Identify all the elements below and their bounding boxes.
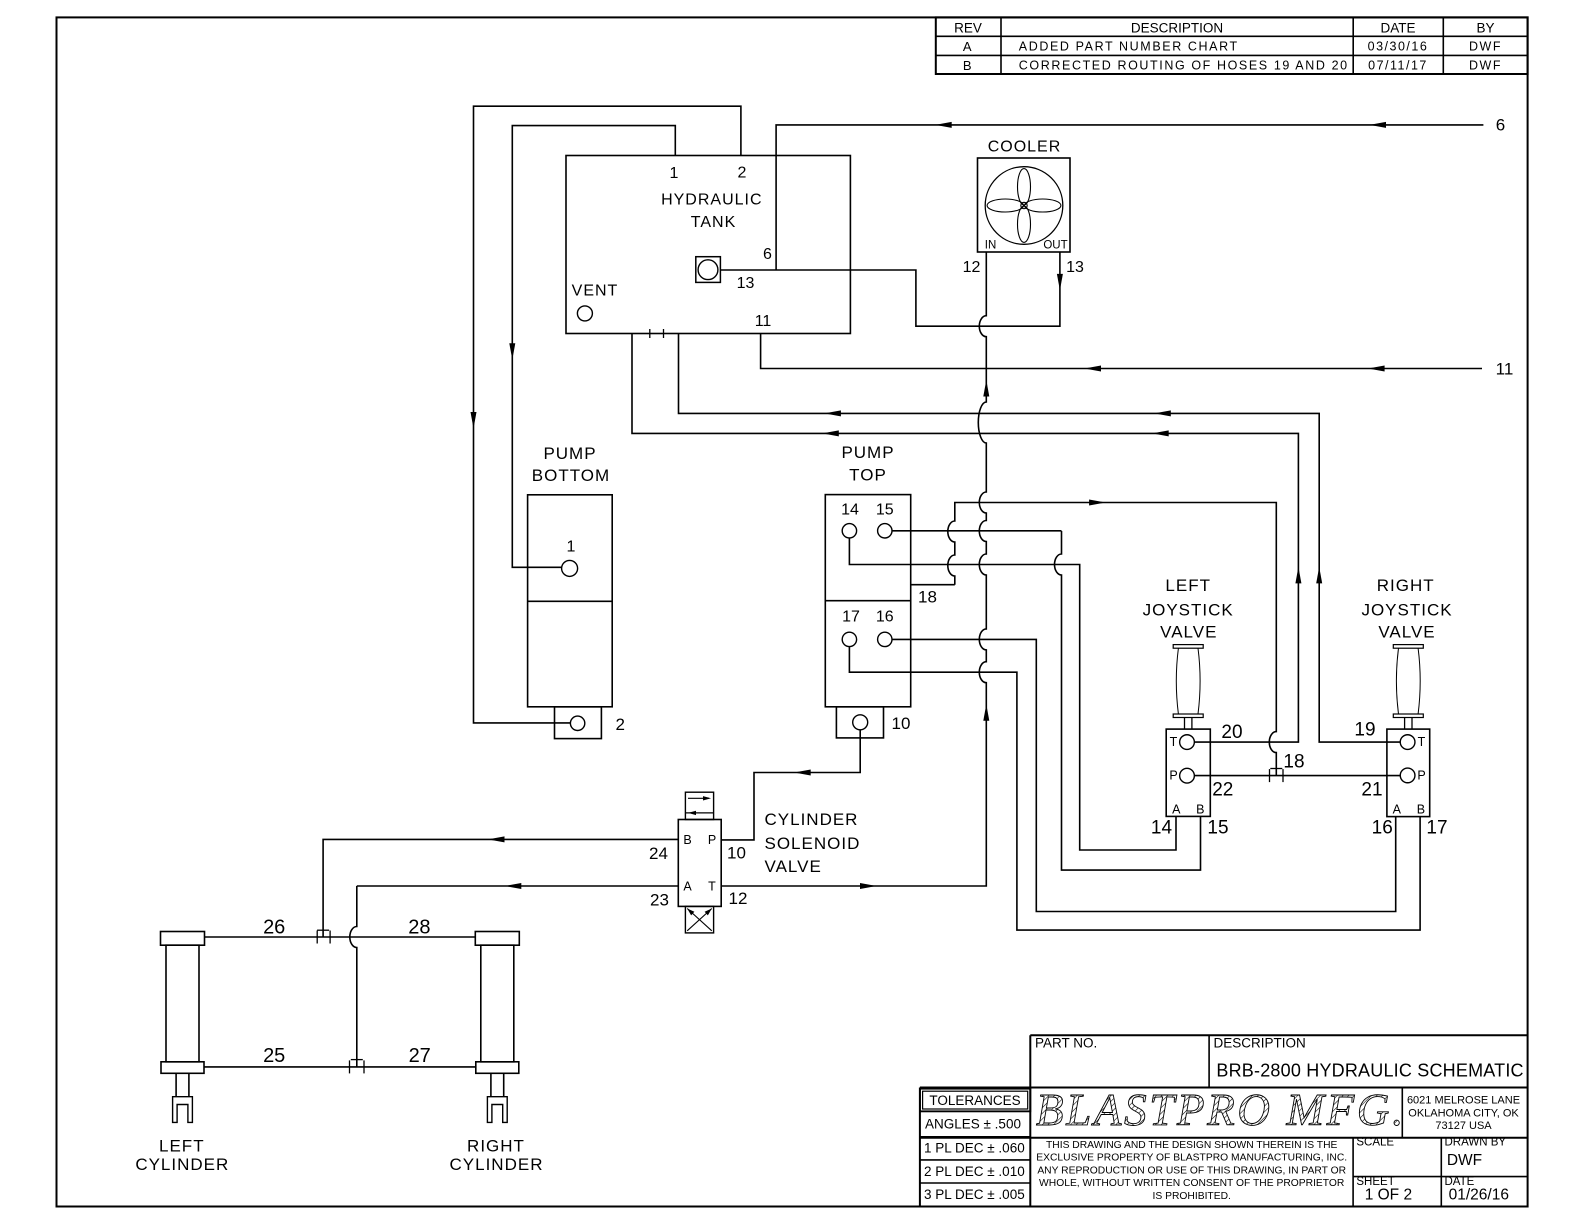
- svg-text:07/11/17: 07/11/17: [1368, 58, 1428, 72]
- svg-text:DRAWN BY: DRAWN BY: [1445, 1137, 1507, 1149]
- svg-text:17: 17: [1426, 818, 1447, 839]
- svg-text:T: T: [1418, 735, 1426, 749]
- svg-text:22: 22: [1212, 780, 1233, 801]
- svg-text:T: T: [708, 880, 716, 894]
- svg-text:P: P: [708, 833, 716, 847]
- svg-text:COOLER: COOLER: [988, 139, 1062, 156]
- svg-text:VENT: VENT: [572, 283, 619, 300]
- svg-text:B: B: [1417, 802, 1425, 816]
- svg-text:OKLAHOMA CITY, OK: OKLAHOMA CITY, OK: [1408, 1108, 1519, 1120]
- svg-text:ADDED PART NUMBER CHART: ADDED PART NUMBER CHART: [1019, 40, 1239, 54]
- svg-text:14: 14: [1151, 818, 1173, 839]
- svg-text:17: 17: [842, 609, 860, 626]
- svg-text:26: 26: [263, 917, 285, 939]
- svg-text:WHOLE, WITHOUT WRITTEN CONSENT: WHOLE, WITHOUT WRITTEN CONSENT OF THE PR…: [1039, 1178, 1344, 1189]
- svg-text:2 PL DEC ± .010: 2 PL DEC ± .010: [924, 1164, 1025, 1179]
- svg-text:DESCRIPTION: DESCRIPTION: [1214, 1036, 1306, 1051]
- svg-text:18: 18: [918, 588, 937, 607]
- svg-text:12: 12: [729, 889, 748, 908]
- svg-text:LEFT: LEFT: [159, 1137, 205, 1156]
- svg-text:1 OF 2: 1 OF 2: [1365, 1186, 1412, 1203]
- svg-text:BOTTOM: BOTTOM: [532, 466, 610, 485]
- svg-text:16: 16: [1372, 818, 1393, 839]
- svg-text:2: 2: [738, 165, 747, 182]
- svg-text:LEFT: LEFT: [1165, 576, 1211, 595]
- svg-text:DATE: DATE: [1380, 20, 1415, 35]
- svg-text:PUMP: PUMP: [543, 444, 596, 463]
- svg-text:25: 25: [263, 1045, 285, 1067]
- svg-text:REV: REV: [954, 20, 982, 35]
- svg-text:28: 28: [408, 917, 430, 939]
- svg-text:VALVE: VALVE: [1378, 623, 1435, 642]
- svg-text:IN: IN: [985, 240, 997, 252]
- svg-text:TOP: TOP: [849, 466, 887, 485]
- svg-text:SOLENOID: SOLENOID: [765, 834, 861, 853]
- svg-text:01/26/16: 01/26/16: [1449, 1186, 1509, 1203]
- svg-text:P: P: [1169, 769, 1177, 783]
- svg-text:RIGHT: RIGHT: [467, 1137, 525, 1156]
- svg-text:EXCLUSIVE PROPERTY OF BLASTPRO: EXCLUSIVE PROPERTY OF BLASTPRO MANUFACTU…: [1036, 1153, 1347, 1164]
- svg-text:13: 13: [1066, 259, 1084, 276]
- svg-text:CYLINDER: CYLINDER: [765, 810, 859, 829]
- svg-text:TOLERANCES: TOLERANCES: [929, 1093, 1020, 1108]
- svg-text:DWF: DWF: [1469, 40, 1502, 54]
- svg-text:19: 19: [1354, 720, 1375, 741]
- svg-text:IS PROHIBITED.: IS PROHIBITED.: [1153, 1191, 1231, 1202]
- svg-text:BRB-2800 HYDRAULIC SCHEMATIC: BRB-2800 HYDRAULIC SCHEMATIC: [1216, 1060, 1523, 1080]
- svg-text:6021 MELROSE LANE: 6021 MELROSE LANE: [1407, 1095, 1520, 1107]
- svg-text:1: 1: [567, 539, 576, 556]
- svg-text:SCALE: SCALE: [1356, 1137, 1394, 1149]
- svg-text:VALVE: VALVE: [765, 857, 822, 876]
- svg-text:18: 18: [1283, 752, 1304, 773]
- svg-text:HYDRAULIC: HYDRAULIC: [661, 192, 762, 209]
- svg-text:16: 16: [876, 609, 894, 626]
- svg-text:15: 15: [876, 501, 894, 518]
- svg-text:JOYSTICK: JOYSTICK: [1361, 601, 1452, 620]
- svg-text:THIS DRAWING AND THE DESIGN SH: THIS DRAWING AND THE DESIGN SHOWN THEREI…: [1046, 1140, 1338, 1151]
- svg-text:A: A: [1393, 802, 1402, 816]
- svg-text:VALVE: VALVE: [1160, 623, 1217, 642]
- svg-text:ANGLES ± .500: ANGLES ± .500: [925, 1117, 1021, 1132]
- svg-text:10: 10: [727, 844, 746, 863]
- svg-text:6: 6: [1496, 115, 1505, 134]
- svg-text:DESCRIPTION: DESCRIPTION: [1131, 20, 1223, 35]
- svg-text:24: 24: [649, 844, 668, 863]
- svg-text:2: 2: [616, 715, 625, 734]
- svg-text:B: B: [963, 58, 973, 73]
- svg-text:1: 1: [670, 165, 679, 182]
- svg-text:11: 11: [1496, 360, 1514, 379]
- svg-text:B: B: [683, 833, 691, 847]
- svg-text:JOYSTICK: JOYSTICK: [1143, 601, 1234, 620]
- svg-text:23: 23: [650, 891, 669, 910]
- svg-text:CYLINDER: CYLINDER: [450, 1155, 544, 1174]
- svg-text:DWF: DWF: [1469, 58, 1502, 72]
- svg-text:A: A: [683, 880, 692, 894]
- svg-text:BLASTPRO MFG.: BLASTPRO MFG.: [1036, 1085, 1406, 1135]
- svg-text:20: 20: [1221, 722, 1242, 743]
- svg-text:13: 13: [737, 275, 755, 292]
- svg-text:03/30/16: 03/30/16: [1368, 40, 1429, 54]
- svg-text:3 PL DEC ± .005: 3 PL DEC ± .005: [924, 1187, 1025, 1202]
- svg-text:OUT: OUT: [1043, 240, 1067, 252]
- svg-text:RIGHT: RIGHT: [1377, 576, 1435, 595]
- svg-text:A: A: [963, 39, 973, 54]
- svg-text:73127 USA: 73127 USA: [1435, 1120, 1492, 1132]
- svg-text:TANK: TANK: [691, 214, 736, 231]
- svg-text:CYLINDER: CYLINDER: [135, 1155, 229, 1174]
- svg-text:B: B: [1196, 802, 1204, 816]
- svg-text:CORRECTED ROUTING OF HOSES 19: CORRECTED ROUTING OF HOSES 19 AND 20: [1019, 58, 1349, 72]
- svg-text:PUMP: PUMP: [841, 443, 894, 462]
- svg-text:A: A: [1172, 802, 1181, 816]
- svg-text:10: 10: [892, 714, 911, 733]
- svg-text:12: 12: [963, 259, 981, 276]
- svg-text:15: 15: [1207, 818, 1228, 839]
- svg-text:PART NO.: PART NO.: [1035, 1036, 1097, 1051]
- svg-text:1 PL DEC ± .060: 1 PL DEC ± .060: [924, 1140, 1025, 1155]
- svg-text:DWF: DWF: [1447, 1152, 1482, 1169]
- svg-text:T: T: [1170, 735, 1178, 749]
- svg-text:6: 6: [763, 246, 772, 263]
- svg-text:BY: BY: [1476, 20, 1494, 35]
- svg-text:ANY REPRODUCTION OR USE OF THI: ANY REPRODUCTION OR USE OF THIS DRAWING,…: [1037, 1165, 1346, 1176]
- svg-text:21: 21: [1361, 779, 1382, 800]
- svg-text:14: 14: [841, 501, 859, 518]
- svg-text:11: 11: [755, 313, 772, 330]
- svg-text:27: 27: [409, 1045, 431, 1067]
- svg-text:P: P: [1417, 768, 1425, 782]
